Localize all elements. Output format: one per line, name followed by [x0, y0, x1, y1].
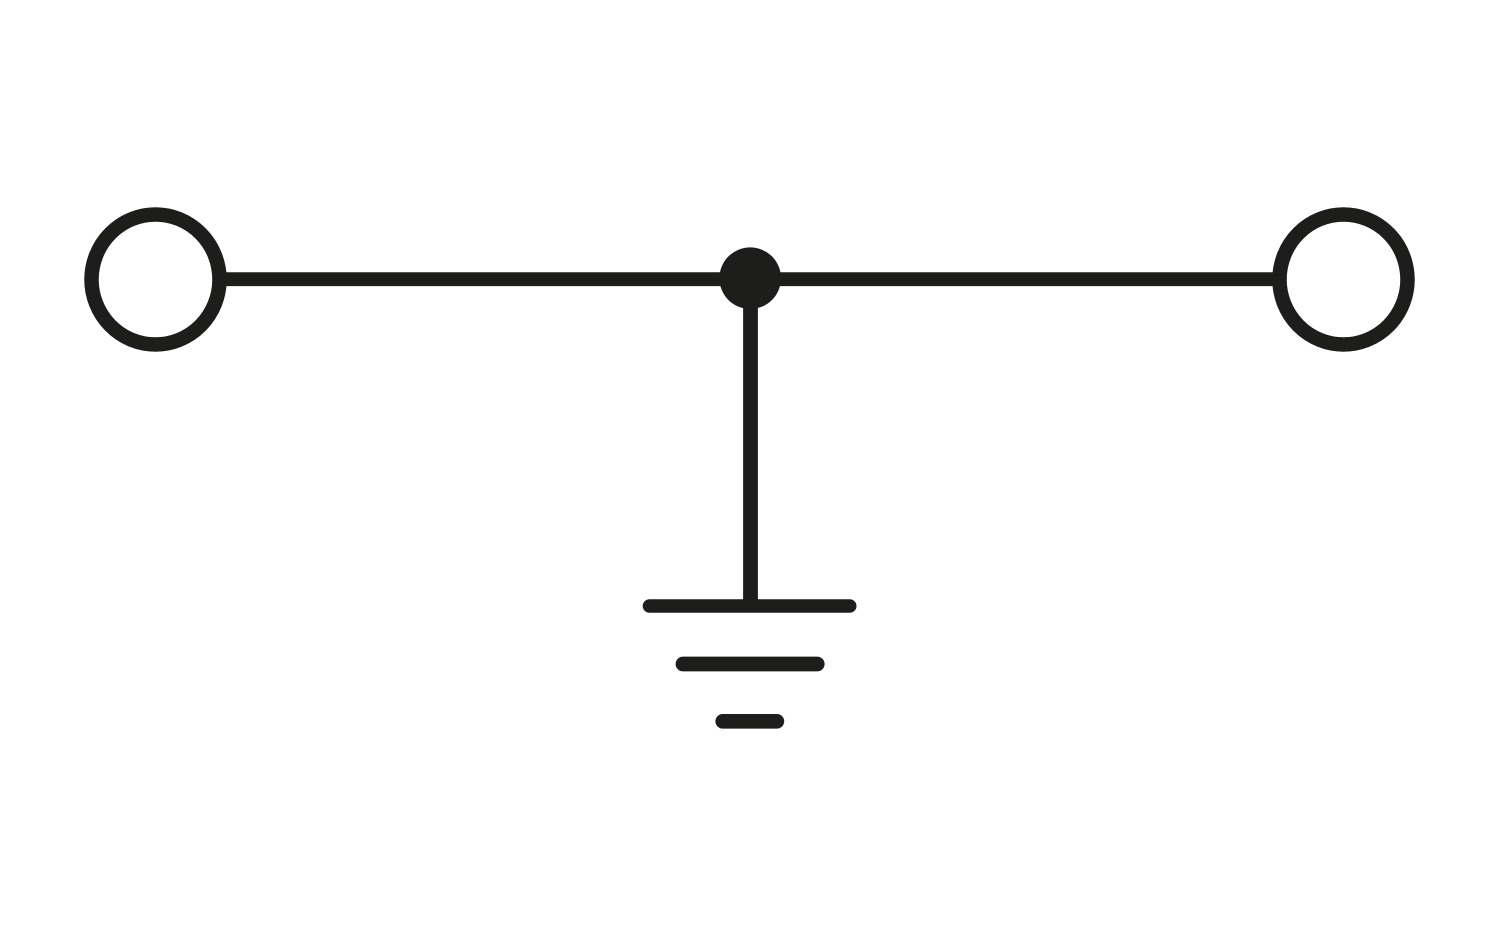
junction node dot	[719, 247, 781, 309]
ground bar 2 (middle)	[683, 657, 817, 672]
ground bar 1 (top, long)	[650, 599, 850, 613]
wire: junction to right terminal	[749, 272, 1280, 286]
wire: left terminal to junction	[219, 272, 752, 286]
terminal circle left (contact point 1)	[92, 215, 220, 345]
wire: junction down to ground	[743, 278, 758, 606]
ground bar 3 (bottom, short)	[723, 714, 777, 729]
terminal circle right (contact point 2)	[1280, 215, 1408, 345]
